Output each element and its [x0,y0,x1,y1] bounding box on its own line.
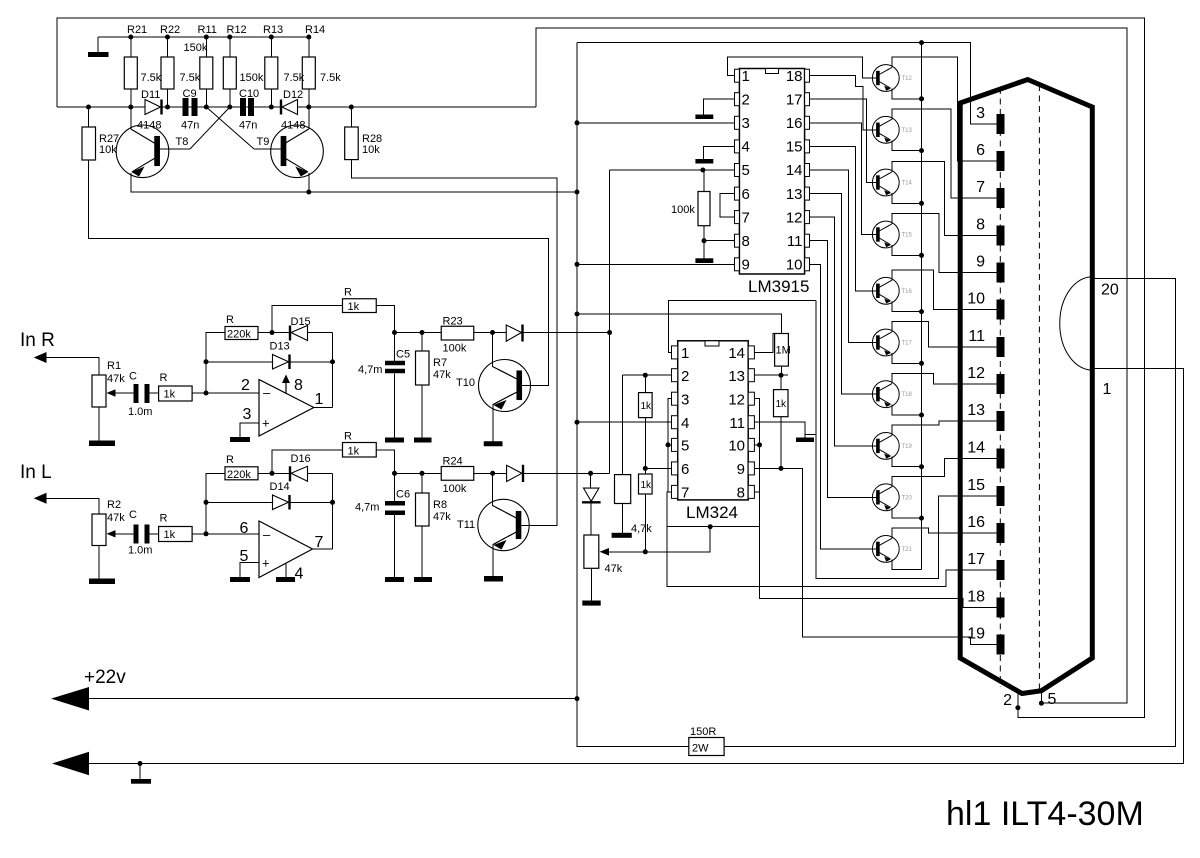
wire LM3915 pin16 to T15 base [810,123,877,235]
arrow R1 wiper [107,389,116,396]
ground bar LM3915 pin2 [695,115,713,120]
potentiometer R1 [92,375,106,407]
capacitor C input L plates [134,525,139,544]
diode D11 [145,100,161,115]
svg-text:7.5k: 7.5k [320,72,341,84]
svg-text:+22v: +22v [84,667,126,688]
ground bar R2 [89,579,115,585]
svg-text:T12: T12 [902,76,913,82]
resistor R 220k ch2 [225,467,258,480]
svg-text:8: 8 [742,233,750,250]
svg-text:C5: C5 [396,349,410,361]
svg-text:220k: 220k [227,469,251,481]
arrow In L [34,493,47,504]
svg-text:C10: C10 [239,88,259,100]
junction dots emitter line [306,190,311,195]
svg-text:100k: 100k [671,204,695,216]
resistor 100k at LM3915 [698,192,710,226]
svg-text:7: 7 [976,179,985,196]
ground bar R7 [414,438,432,443]
svg-text:1.0m: 1.0m [128,545,152,557]
wire LM3915 pin1 to T12 base [727,57,876,78]
svg-text:4148: 4148 [281,120,305,132]
svg-text:R22: R22 [160,24,180,36]
arrow bottom ground line [52,752,89,776]
svg-text:5: 5 [240,548,249,565]
wire display pin1 loop to bottom ground line [89,368,1184,763]
svg-text:10k: 10k [362,144,380,156]
svg-text:LM3915: LM3915 [748,277,809,296]
svg-text:2: 2 [742,92,750,109]
transistor T19 [872,433,899,460]
transistor T21 [872,536,899,563]
wire C6 junction line [395,472,442,474]
svg-text:D16: D16 [291,453,311,465]
wire T16 emitter to bus [892,301,922,311]
potentiometer R2 [92,514,106,546]
transistor T17 [872,329,899,356]
svg-text:R12: R12 [227,24,247,36]
svg-text:T18: T18 [902,392,913,398]
svg-text:16: 16 [967,514,985,531]
ground bar T11 emitter [484,576,503,582]
svg-text:14: 14 [967,440,985,457]
wire R28 path to T11 base [350,107,352,127]
svg-text:T9: T9 [257,136,270,148]
svg-text:15: 15 [967,477,985,494]
svg-text:12: 12 [967,365,985,382]
svg-text:14: 14 [786,162,803,179]
capacitor C6 plates [385,501,405,506]
svg-text:9: 9 [976,254,985,271]
diode D15 [291,326,308,341]
resistor 4.7k [615,475,631,504]
svg-text:2: 2 [681,368,689,385]
transistor T10 [479,360,531,412]
capacitor C5 plates [385,361,405,366]
op-amp U1 pin8 power arrow [285,379,287,394]
svg-text:8: 8 [737,485,745,502]
svg-text:D12: D12 [283,89,303,101]
wire LM3915 pin10 to T21 base [810,264,877,549]
svg-text:4148: 4148 [137,120,161,132]
capacitor C input R plates [134,384,139,403]
wire follower to display pin18 [760,527,997,608]
wire T17 collector to display pin11 [892,322,997,347]
wire top anode line y=42.6 to display pin3 [577,43,997,124]
wire LM324 pin4 line to rail [577,421,672,423]
wire T17 emitter to bus [892,353,922,363]
svg-text:R23: R23 [443,316,463,328]
junction dots opamp2 [204,500,209,505]
wire T14 collector to display pin8 [892,162,997,236]
display dashed line right [1038,85,1040,690]
wire T10 collector riser [493,333,518,380]
wire LM324 pin13 line [754,374,788,376]
wire R2 bottom to ground [98,546,100,579]
junction dot bottom ground stub [138,761,143,766]
svg-text:4: 4 [742,139,750,156]
svg-text:3: 3 [243,406,252,423]
wire opamp1 D13 line [206,361,273,363]
svg-text:1k: 1k [348,301,360,313]
svg-text:4: 4 [295,566,304,583]
wire cross-coupling diagonal to T9 base [206,107,254,149]
svg-text:T10: T10 [456,377,475,389]
op-amp U2 triangle [259,521,313,578]
wire display pin20 loop via 150R [724,278,1175,746]
wire opamp1 +input ground [240,423,259,437]
svg-text:In R: In R [20,330,55,351]
junction dots +22 rail [575,120,580,125]
resistor 47k potentiometer mid [584,535,599,568]
svg-text:–: – [263,385,271,400]
wire LM324 pin8 stub [754,491,759,493]
wire T15 collector to display pin9 [892,214,997,273]
op-amp IC U3 LM3915 body [739,69,804,275]
svg-text:6: 6 [681,461,689,478]
svg-text:13: 13 [967,402,985,419]
svg-text:20: 20 [1101,282,1119,299]
svg-text:11: 11 [787,233,803,250]
wire LM324 pin7-8 loop [667,399,760,527]
svg-text:47k: 47k [433,511,451,523]
wire R7 leads [421,333,423,352]
junction dots OR node and zener branch [607,330,612,335]
svg-text:1: 1 [315,391,324,408]
wire LM3915 pin5 signal line [610,169,735,171]
svg-text:10: 10 [967,291,985,308]
svg-text:1k: 1k [641,480,653,491]
wire LM3915 pin18 to T13 base [810,76,877,130]
svg-text:18: 18 [967,589,985,606]
wire opamp2 pin4 stub [285,563,287,577]
svg-text:R: R [160,372,168,384]
wire opamp1 1k feedback over the top [272,306,343,333]
svg-text:2W: 2W [692,743,709,755]
wire R23 to diode to OR node [474,332,507,334]
arrow +22v [51,687,89,711]
ground bar C5 [385,438,404,443]
ground bar opamp1 pin3 [230,437,250,442]
svg-text:1k: 1k [776,399,788,410]
svg-text:1k: 1k [641,401,653,412]
ground bar LM3915 pin4 [695,159,713,164]
svg-text:R: R [344,431,352,443]
svg-text:R8: R8 [433,499,447,511]
op-amp U1 triangle [259,380,314,437]
wire +22v rail x=577 [576,43,578,699]
svg-text:1k: 1k [348,446,360,458]
wire 100k leads [703,170,705,192]
svg-text:C9: C9 [183,88,197,100]
wire LM3915 pin11 to T20 base [810,241,877,498]
IC U4 LM324 body [678,341,749,500]
transistor T14 [872,169,899,196]
wire R14 leads [308,37,310,57]
diode after R23 [506,325,521,341]
svg-text:T19: T19 [902,444,913,450]
svg-text:18: 18 [786,68,803,85]
wire T11 collector riser [493,473,517,518]
svg-text:47k: 47k [107,373,125,385]
junction dots emitter bus [919,40,924,45]
wire LM3915 pin2 to ground [704,99,735,114]
wire LM324 pin2 line [623,374,672,376]
wire R11 leads [205,37,207,57]
svg-text:17: 17 [786,92,803,109]
wire R13 leads [270,37,272,57]
junction dots top rail [128,35,133,40]
svg-text:14: 14 [728,345,745,362]
svg-text:T8: T8 [176,136,189,148]
svg-text:R2: R2 [107,499,121,511]
wire +22v line [89,698,577,700]
wire T19 collector to display pin13 [892,421,997,435]
svg-text:100k: 100k [443,483,467,495]
svg-text:12: 12 [728,392,745,409]
wire R2 wiper to cap to 1k [110,533,134,535]
svg-text:4: 4 [681,415,689,432]
junction dots opamp1 [204,359,209,364]
wire T9 collector lead [308,107,310,129]
svg-text:R14: R14 [305,24,325,36]
resistor R13 [265,57,278,89]
wire top frame A (y=18 rail to display pin2 return) [57,18,1145,718]
wire T10 emitter to ground [493,392,517,441]
wire opamp1 output vertical [332,333,334,408]
wire LM324 pin9 line to pin19 display [754,468,996,644]
svg-text:47k: 47k [605,563,623,575]
svg-text:T11: T11 [457,519,475,531]
wire R8 leads [421,473,423,493]
wire T21 collector to display pin16 [892,528,997,538]
svg-text:12: 12 [786,209,803,226]
svg-text:R13: R13 [263,24,283,36]
wire T12 emitter to bus [892,89,922,99]
capacitor C10 plates [240,98,246,116]
svg-text:1: 1 [1103,381,1112,398]
LM3915 pin boxes left pins 1-9 [735,69,740,82]
wire T14 emitter to bus [892,193,922,203]
wire LM324 1k-a leads [644,375,646,392]
svg-text:1: 1 [742,68,750,85]
wire frame B (y=28 bus to display pin5 return) [536,28,1127,703]
svg-text:17: 17 [967,551,985,568]
svg-text:LM324: LM324 [686,503,738,522]
wire +22 rail down to 150R [577,699,689,747]
wire T11 emitter to ground [493,532,516,576]
svg-text:D14: D14 [270,481,290,493]
transistor T12 [872,65,899,92]
wire follower to display pin17 [667,527,997,587]
wire LM324 pin3-5-7 vertical [668,399,672,492]
wire +22 to 1M top [577,314,782,334]
wire T16 collector to display pin10 [892,270,997,310]
arrow R2 wiper [107,530,116,537]
ground bar opamp2 pin4 [276,577,295,582]
diode D12 [282,100,298,115]
wire T18 emitter to bus [892,405,922,415]
resistor 1k-a LM324 [639,393,653,418]
svg-text:8: 8 [294,377,303,394]
ground bar R1 [89,441,115,447]
wire LM324 pin10 stub [754,444,759,446]
svg-text:7.5k: 7.5k [141,72,162,84]
junction dots bus y=107 [86,105,91,110]
wire LM324 pin1 loop to ground [668,300,816,352]
resistor 1k-c LM324 [774,390,789,417]
wire R1 bottom to ground [98,407,100,441]
wire LM324 pin14 to 1M top [754,334,781,353]
svg-text:R24: R24 [443,456,463,468]
svg-text:3: 3 [976,105,985,122]
diode D13 [273,355,289,370]
svg-text:R21: R21 [127,24,147,36]
diode vertical at 47k pot [584,488,599,501]
wire R22 leads [167,37,169,57]
wire R27 path to T10 base [88,107,90,127]
wire OR-node vertical x=609.6 [609,170,611,473]
svg-text:R1: R1 [107,360,121,372]
svg-text:C: C [129,371,137,383]
wire LM3915 pin12 to T19 base [810,217,877,446]
svg-text:R: R [344,287,352,299]
resistor R24 [441,467,474,481]
svg-text:T17: T17 [902,341,913,347]
wire opamp2 1k feedback over the top [272,450,343,474]
svg-text:11: 11 [729,415,745,432]
wire opamp2 D14 line [206,501,273,503]
wire T20 collector to display pin14 [892,459,997,487]
transistor T11 [478,499,529,550]
svg-text:T16: T16 [902,289,913,295]
wire resistor top rail y=37 [98,36,309,38]
svg-text:10: 10 [728,438,745,455]
LM324 pin boxes left pins 1-7 [672,346,678,359]
svg-text:1.0m: 1.0m [128,406,152,418]
resistor R 1k feedback ch1 [343,299,377,313]
wire T13 emitter to bus [892,140,922,150]
resistor R12 [223,57,236,89]
junction dots LM3915 [700,168,705,173]
wire T15 emitter to bus [892,245,922,255]
wire R24 to diode to OR node [474,472,507,474]
ground bar T10 emitter [484,441,503,446]
wire opamp2 +input ground [240,563,259,578]
wire R1 wiper to cap to 1k [110,392,134,394]
svg-text:R: R [160,513,168,525]
ground bar bottom line [131,779,151,784]
svg-text:47n: 47n [239,120,257,132]
resistor R27 [82,127,96,160]
svg-text:1k: 1k [164,529,176,541]
resistor R11 [200,57,213,89]
wire opamp1 220k to D15 node [258,332,290,334]
wire T19 emitter to bus [892,456,922,466]
svg-text:220k: 220k [227,329,251,341]
svg-text:2: 2 [1003,692,1012,709]
wire 1M bottom to pin13 line [781,366,783,375]
svg-text:1k: 1k [164,389,176,401]
wire T20 emitter to bus [892,508,922,518]
svg-text:13: 13 [728,368,745,385]
wire LM3915 pin3 to rail [577,122,735,124]
svg-text:150k: 150k [240,72,264,84]
wire opamp1 feedback left branch [206,333,225,394]
svg-text:47k: 47k [433,369,451,381]
resistor 150R 2W [689,738,724,756]
svg-text:4,7m: 4,7m [355,502,379,514]
resistor 1M [775,334,789,367]
diode D14 [273,495,289,510]
wire T12 collector to display pin6 [892,57,997,161]
transistor T18 [872,381,899,408]
svg-text:10k: 10k [99,144,117,156]
wire T18 collector to display pin12 [892,373,997,384]
svg-text:7: 7 [681,485,689,502]
wire LM324 pin11 to ground [754,422,805,437]
resistor R28 [345,127,359,160]
wire pin1-loop ground riser and pin15 return [816,300,996,578]
svg-text:+: + [262,556,270,571]
diode D16 [291,466,308,481]
wire 1k-c leads [780,375,782,389]
transistor T9 [271,125,324,178]
wire opamp2 feedback left branch [206,473,225,534]
svg-text:T20: T20 [902,495,913,501]
svg-text:+: + [262,416,270,431]
wire 47k pot bottom to ground [590,568,592,600]
wire bus segments around D11 C9 C10 D12 [131,106,145,108]
svg-text:7.5k: 7.5k [180,72,201,84]
svg-text:C: C [129,509,137,521]
wire zener branch from L line [590,473,592,488]
svg-text:7: 7 [315,534,324,551]
wire In R input line [46,358,99,376]
ground bar 4.7k [612,533,632,538]
svg-text:4,7m: 4,7m [358,364,382,376]
wire 4.7k bottom to ground [622,504,624,533]
wire C5 junction line [395,332,442,334]
wire T21 emitter joins bus bottom [892,559,922,569]
capacitor C9 plates [183,98,189,116]
ground top-left [97,37,99,52]
wire LM3915 pin13 to T18 base [810,194,877,395]
wire In L input line [46,498,99,514]
svg-text:9: 9 [742,257,750,274]
resistor R21 [124,57,137,89]
ground bar LM324 pin11 [796,438,814,443]
wire LM324 1k-b leads [644,468,646,474]
wire C5 leads [394,333,396,361]
ground bar 47k pot [582,601,600,606]
svg-text:150R: 150R [690,726,716,738]
svg-text:R: R [226,314,234,326]
resistor R 1k input right [159,386,193,401]
svg-text:7.5k: 7.5k [284,72,305,84]
svg-text:47n: 47n [181,120,199,132]
svg-text:1M: 1M [776,345,791,357]
ground bar opamp2 pin5 [230,577,250,582]
transistor T15 [872,221,899,248]
svg-text:4,7k: 4,7k [631,523,652,535]
svg-text:R7: R7 [433,357,447,369]
resistor R22 [161,57,174,89]
transistor T20 [872,484,899,511]
wire LM3915 pin4 to ground [704,146,735,159]
wire C6 leads [394,473,396,501]
